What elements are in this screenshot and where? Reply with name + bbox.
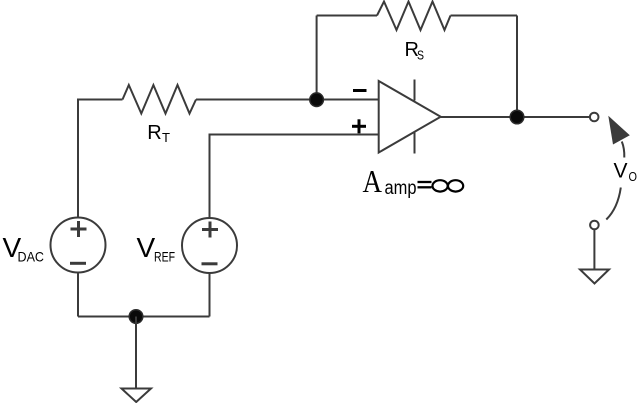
svg-text:REF: REF [154,249,175,265]
wire VDAC bottom [77,273,79,317]
wire feedback top right horizontal [451,15,518,17]
junction inverting input node [310,93,324,107]
wire op-amp output [441,116,590,118]
op-amp non-inverting input marker + [352,119,366,133]
op-amp U1 [379,80,441,154]
svg-text:V: V [614,160,628,183]
junction bottom ground node [129,310,143,324]
wire RT to inverting input [196,99,379,101]
wire VREF bottom [209,273,211,317]
voltage source VREF [182,218,237,273]
wire VDAC to RT [78,100,123,218]
op-amp inverting input marker - [353,89,367,92]
voltage source VDAC [51,218,106,273]
svg-text:O: O [629,169,638,184]
output terminal VO [590,113,599,122]
svg-text:DAC: DAC [18,249,45,265]
ground terminal [590,221,599,230]
svg-text:amp: amp [385,178,417,199]
ground [122,389,152,403]
wire ground terminal stem [593,229,595,269]
wire feedback top left horizontal [317,15,377,17]
svg-text:R: R [147,122,161,144]
svg-text:T: T [162,130,170,145]
ground [580,270,609,284]
svg-text:S: S [417,48,424,63]
wire bottom rail [78,316,210,318]
wire feedback right vertical [516,16,518,118]
svg-text:V: V [137,232,156,263]
resistor RT [123,85,197,114]
arrow VO curved annotation [606,142,624,220]
junction output node [510,110,524,124]
svg-text:A: A [363,164,383,199]
wire feedback left vertical [316,16,318,101]
resistor RS [377,2,451,31]
wire ground stem [135,317,137,389]
wire VREF to non-inverting input [210,135,379,219]
